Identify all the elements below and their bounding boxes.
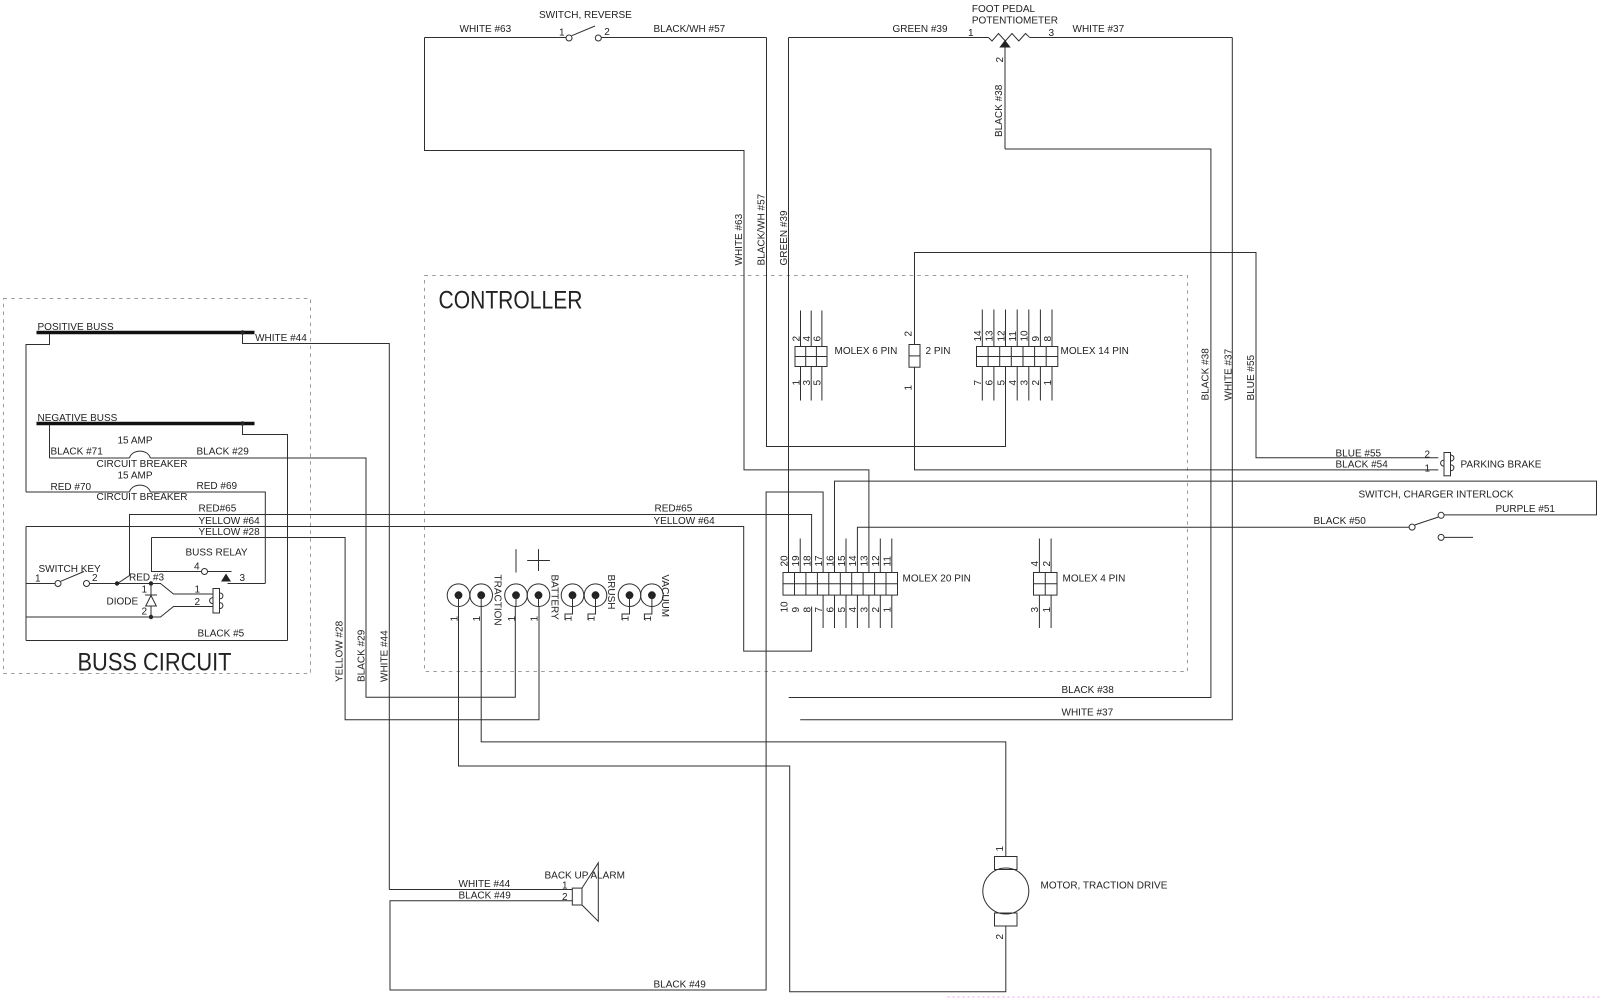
- wire GREEN #39 to pot pin 1: [789, 37, 989, 39]
- svg-text:2: 2: [791, 336, 802, 342]
- svg-text:BLACK/WH #57: BLACK/WH #57: [757, 193, 768, 265]
- molex14 pin 11 wire: [1016, 310, 1018, 347]
- wire WHITE #63 top horizontal: [425, 37, 567, 39]
- svg-text:BLUE #55: BLUE #55: [1246, 354, 1257, 400]
- svg-text:11: 11: [1008, 331, 1019, 342]
- connector J1 relay coil plug: [210, 589, 223, 614]
- 2pin pin 1 wire to parking brake BLACK #54: [915, 367, 1439, 470]
- molex14 pin 3 wire: [1028, 367, 1030, 401]
- node positive buss tap: [240, 330, 244, 334]
- svg-text:BLACK #54: BLACK #54: [1336, 460, 1389, 471]
- potentiometer R1 resistor body: [989, 34, 1030, 42]
- wire relay pin 3: [228, 583, 266, 585]
- svg-text:10: 10: [780, 601, 791, 613]
- motor M1 traction drive: [983, 857, 1029, 927]
- svg-text:2: 2: [871, 607, 882, 613]
- wire RED #69 route to relay pin 3: [150, 492, 265, 584]
- molex6 pin 4 wire: [810, 311, 812, 347]
- svg-text:SWITCH, CHARGER INTERLOCK: SWITCH, CHARGER INTERLOCK: [1359, 490, 1514, 501]
- svg-text:2: 2: [904, 331, 915, 337]
- molex4 pin 4 wire: [1038, 539, 1040, 573]
- wire GREEN #39 route to molex20 pin20: [788, 38, 790, 573]
- svg-text:4: 4: [1030, 561, 1041, 567]
- svg-text:6: 6: [985, 380, 996, 386]
- svg-text:CIRCUIT BREAKER: CIRCUIT BREAKER: [97, 492, 188, 503]
- wire YELLOW #28 route to terminal c4: [152, 538, 540, 720]
- svg-text:11: 11: [883, 556, 894, 567]
- svg-text:CONTROLLER: CONTROLLER: [439, 287, 583, 315]
- connector MOLEX 14 PIN body: [977, 347, 1058, 367]
- wire RED #65 route to molex20 pin18: [118, 515, 812, 584]
- molex14 pin 4 wire: [1016, 367, 1018, 401]
- connector MOLEX 4 PIN body: [1034, 573, 1058, 596]
- molex4 pin 2 wire: [1050, 539, 1052, 573]
- svg-text:WHITE #63: WHITE #63: [460, 24, 512, 35]
- svg-text:3: 3: [860, 607, 871, 613]
- molex4 pin 1 wire: [1050, 595, 1052, 628]
- svg-text:1: 1: [559, 28, 565, 39]
- svg-text:14: 14: [973, 330, 984, 342]
- svg-text:BLACK #49: BLACK #49: [459, 891, 512, 902]
- label FOOT PEDAL POTENTIOMETER: [972, 4, 1058, 26]
- svg-text:MOLEX 14 PIN: MOLEX 14 PIN: [1061, 346, 1129, 357]
- pot wiper arrow pin 2: [999, 40, 1010, 48]
- svg-text:POTENTIOMETER: POTENTIOMETER: [972, 15, 1058, 26]
- svg-text:WHITE #37: WHITE #37: [1224, 348, 1235, 400]
- svg-text:SWITCH, REVERSE: SWITCH, REVERSE: [539, 10, 632, 21]
- wire relay coil pin 1 lead: [151, 584, 213, 595]
- wire diode bottom rail: [26, 616, 151, 618]
- speaker LS1 back up alarm: [572, 863, 598, 922]
- svg-text:WHITE #37: WHITE #37: [1062, 708, 1114, 719]
- svg-text:RED #3: RED #3: [129, 573, 164, 584]
- svg-text:19: 19: [791, 555, 802, 567]
- molex20 pin 2 wire: [879, 595, 881, 628]
- svg-text:1: 1: [530, 616, 541, 622]
- connector J2 parking brake plug: [1441, 453, 1454, 476]
- wire BLACK #38 route pot pin2 to molex20 pin10: [789, 149, 1211, 698]
- svg-text:WHITE #44: WHITE #44: [380, 630, 391, 682]
- wire BLACK #50 molex20 pin14 to interlock: [857, 527, 1409, 572]
- wire terminal T5 stub: [565, 595, 573, 620]
- switch S3 spare throw: [1438, 534, 1473, 540]
- svg-text:BLACK #49: BLACK #49: [654, 980, 707, 991]
- svg-text:5: 5: [996, 380, 1007, 386]
- svg-text:2: 2: [194, 597, 200, 608]
- svg-text:2: 2: [604, 27, 610, 38]
- svg-text:1: 1: [791, 380, 802, 386]
- wire BLACK #49 route alarm pin2 to molex20 pin17: [390, 492, 823, 990]
- connector 2 PIN body: [909, 345, 920, 368]
- controller dashed enclosure: [425, 276, 1188, 672]
- svg-text:BLACK/WH #57: BLACK/WH #57: [654, 24, 726, 35]
- svg-text:2: 2: [995, 57, 1006, 63]
- svg-text:BLACK #38: BLACK #38: [994, 84, 1005, 137]
- molex14 pin 6 wire: [993, 367, 995, 401]
- svg-text:1: 1: [562, 881, 568, 892]
- terminal posts T1-T8: [447, 584, 663, 607]
- molex20 pin 3 wire: [868, 595, 870, 628]
- positive buss bar: [37, 331, 255, 334]
- svg-text:MOLEX 4 PIN: MOLEX 4 PIN: [1063, 574, 1126, 585]
- negative buss bar: [37, 422, 255, 425]
- svg-text:9: 9: [1031, 336, 1042, 342]
- molex14 pin 7 wire: [981, 367, 983, 401]
- molex20 pin 6 wire: [834, 595, 836, 628]
- molex14 pin 12 wire: [1005, 310, 1007, 347]
- wire switch key pin2 to node: [90, 583, 151, 585]
- svg-text:BLACK #29: BLACK #29: [197, 447, 250, 458]
- svg-text:1: 1: [968, 28, 974, 39]
- svg-text:GREEN #39: GREEN #39: [893, 24, 948, 35]
- wire terminal T6 stub: [588, 595, 596, 620]
- svg-text:RED#65: RED#65: [655, 504, 693, 515]
- molex14 pin 14 wire: [981, 310, 983, 347]
- svg-text:1: 1: [35, 574, 41, 585]
- svg-text:RED #70: RED #70: [51, 482, 92, 493]
- connector MOLEX 20 PIN body: [783, 573, 898, 596]
- wire terminal T2 to motor pin 1: [481, 595, 1006, 856]
- 2pin pin 2 wire to parking brake via BLUE #55: [915, 253, 1439, 458]
- svg-text:12: 12: [996, 330, 1007, 342]
- svg-text:BACK UP ALARM: BACK UP ALARM: [545, 871, 625, 882]
- svg-text:7: 7: [814, 607, 825, 613]
- node RED #3 junction a: [115, 581, 119, 585]
- svg-text:2: 2: [1042, 561, 1053, 567]
- wire terminal T1 to motor pin 2: [459, 595, 1006, 992]
- svg-text:2 PIN: 2 PIN: [926, 346, 951, 357]
- svg-text:1: 1: [1424, 464, 1430, 475]
- svg-text:BATTERY: BATTERY: [549, 575, 560, 621]
- left rail vertical buss circuit: [25, 527, 27, 641]
- svg-text:2: 2: [1031, 380, 1042, 386]
- relay K1 coil feed wire: [152, 538, 202, 572]
- wire terminal T8 stub: [644, 595, 652, 620]
- wire BLACK #5: [26, 640, 288, 642]
- svg-text:5: 5: [813, 380, 824, 386]
- svg-text:VACUUM: VACUUM: [659, 575, 670, 618]
- svg-text:RED#65: RED#65: [199, 504, 237, 515]
- svg-text:1: 1: [1043, 380, 1054, 386]
- buss circuit dashed enclosure: [4, 299, 311, 674]
- svg-text:2: 2: [995, 934, 1006, 940]
- svg-text:BLACK #5: BLACK #5: [198, 629, 245, 640]
- svg-text:FOOT PEDAL: FOOT PEDAL: [972, 4, 1036, 15]
- svg-text:MOLEX 6 PIN: MOLEX 6 PIN: [835, 346, 898, 357]
- svg-text:BLACK #38: BLACK #38: [1062, 685, 1115, 696]
- switch S2 key contacts: [55, 572, 90, 587]
- molex14 pin 13 wire: [993, 310, 995, 347]
- switch S3 charger interlock: [1409, 512, 1444, 530]
- svg-text:7: 7: [973, 380, 984, 386]
- svg-text:1: 1: [904, 385, 915, 391]
- svg-text:10: 10: [1020, 330, 1031, 342]
- molex6 pin 3 wire: [810, 367, 812, 401]
- wire to switch key pin 1: [26, 583, 55, 585]
- svg-text:2: 2: [141, 607, 147, 618]
- svg-text:CIRCUIT BREAKER: CIRCUIT BREAKER: [97, 459, 188, 470]
- molex20 pin 12 wire: [879, 539, 881, 573]
- wire YELLOW #64 route to molex20 pin8: [26, 527, 812, 652]
- relay K1 contact: [202, 569, 232, 582]
- wire negative buss to BLACK #5: [243, 424, 288, 641]
- svg-text:BLACK #71: BLACK #71: [51, 447, 104, 458]
- svg-text:2: 2: [1424, 450, 1430, 461]
- svg-text:15 AMP: 15 AMP: [118, 471, 153, 482]
- wire WHITE #63 route to molex20 pin13: [425, 38, 869, 573]
- svg-text:WHITE #37: WHITE #37: [1073, 24, 1125, 35]
- svg-text:1: 1: [507, 616, 518, 622]
- wire BLACK/WH #57 top horizontal: [601, 37, 766, 39]
- svg-text:1: 1: [194, 585, 200, 596]
- svg-text:1: 1: [995, 846, 1006, 852]
- svg-text:PURPLE #51: PURPLE #51: [1496, 504, 1556, 515]
- wire terminal T3 stub: [515, 595, 517, 606]
- svg-text:3: 3: [1030, 607, 1041, 613]
- svg-text:BLACK #29: BLACK #29: [357, 629, 368, 682]
- svg-text:4: 4: [848, 607, 859, 613]
- svg-text:12: 12: [871, 555, 882, 567]
- svg-text:BUSS CIRCUIT: BUSS CIRCUIT: [78, 649, 232, 677]
- svg-text:5: 5: [837, 607, 848, 613]
- svg-text:YELLOW #64: YELLOW #64: [199, 516, 261, 527]
- svg-text:4: 4: [194, 562, 200, 573]
- svg-text:3: 3: [240, 573, 246, 584]
- svg-text:15: 15: [837, 555, 848, 567]
- svg-text:MOTOR, TRACTION DRIVE: MOTOR, TRACTION DRIVE: [1041, 881, 1168, 892]
- svg-text:BLACK #50: BLACK #50: [1314, 516, 1367, 527]
- svg-text:DIODE: DIODE: [107, 597, 139, 608]
- molex14 pin 2 wire: [1039, 367, 1041, 401]
- svg-text:3: 3: [1020, 380, 1031, 386]
- svg-text:2: 2: [562, 892, 568, 903]
- svg-text:9: 9: [791, 607, 802, 613]
- molex20 pin 7 wire: [822, 595, 824, 628]
- svg-text:1: 1: [883, 607, 894, 613]
- node RED #3 junction b: [149, 581, 153, 585]
- svg-text:GREEN #39: GREEN #39: [779, 210, 790, 265]
- wire positive buss drop to RED #70: [26, 334, 50, 493]
- svg-text:1: 1: [141, 585, 147, 596]
- molex14 pin 1 wire: [1051, 367, 1053, 401]
- switch S1 reverse contacts: [566, 26, 601, 41]
- svg-text:2: 2: [92, 573, 98, 584]
- battery plus mark: [527, 549, 550, 571]
- molex14 pin 8 wire: [1051, 310, 1053, 347]
- svg-text:8: 8: [1043, 336, 1054, 342]
- node diode cathode junction: [149, 615, 153, 619]
- pink dotted page mark: [948, 996, 1600, 998]
- svg-text:YELLOW #28: YELLOW #28: [335, 620, 346, 682]
- molex6 pin 2 wire: [800, 311, 802, 347]
- wire WHITE #37 from pot pin 3: [1030, 37, 1233, 39]
- node negative buss tap: [240, 421, 244, 425]
- svg-text:1: 1: [1042, 607, 1053, 613]
- svg-text:6: 6: [813, 336, 824, 342]
- svg-text:RED #69: RED #69: [197, 481, 238, 492]
- battery minus mark: [515, 549, 517, 572]
- svg-text:13: 13: [860, 555, 871, 567]
- wire BLACK/WH #57 route to molex14 pin5: [767, 38, 1006, 447]
- wire terminal T7 stub: [622, 595, 630, 620]
- svg-text:WHITE #44: WHITE #44: [255, 333, 307, 344]
- wire WHITE #44 to alarm pin 1: [389, 889, 572, 891]
- svg-text:BRUSH: BRUSH: [605, 575, 616, 610]
- wire BLACK #29 route to terminal c3: [150, 458, 515, 697]
- svg-text:8: 8: [802, 607, 813, 613]
- svg-text:3: 3: [802, 380, 813, 386]
- svg-text:YELLOW #64: YELLOW #64: [654, 516, 716, 527]
- molex20 pin 4 wire: [856, 595, 858, 628]
- svg-text:6: 6: [825, 607, 836, 613]
- svg-text:15 AMP: 15 AMP: [118, 436, 153, 447]
- svg-text:13: 13: [985, 330, 996, 342]
- wire PURPLE #51 molex20 pin16 to interlock: [835, 481, 1597, 572]
- svg-text:BLUE #55: BLUE #55: [1336, 449, 1382, 460]
- molex20 pin 1 wire: [891, 595, 893, 628]
- molex20 pin 19 wire: [799, 539, 801, 573]
- svg-text:BLACK #38: BLACK #38: [1201, 348, 1212, 401]
- molex20 pin 5 wire: [845, 595, 847, 628]
- svg-text:4: 4: [1008, 380, 1019, 386]
- wire relay coil pin 2 lead: [151, 607, 213, 618]
- molex6 pin 1 wire: [800, 367, 802, 401]
- wire negative buss drop to BLACK #71: [49, 425, 51, 459]
- wire BLACK #38 wiper vertical: [1004, 48, 1006, 150]
- svg-text:4: 4: [802, 336, 813, 342]
- svg-text:BUSS RELAY: BUSS RELAY: [186, 548, 248, 559]
- svg-text:WHITE #44: WHITE #44: [459, 879, 511, 890]
- molex14 pin 9 wire: [1039, 310, 1041, 347]
- molex20 pin 15 wire: [845, 539, 847, 573]
- circuit breaker CB2: [26, 485, 150, 492]
- svg-text:TRACTION: TRACTION: [492, 575, 503, 626]
- svg-text:PARKING BRAKE: PARKING BRAKE: [1461, 460, 1542, 471]
- molex6 pin 5 wire: [821, 367, 823, 401]
- circuit breaker CB1: [50, 451, 151, 458]
- svg-text:18: 18: [802, 555, 813, 567]
- svg-text:20: 20: [780, 555, 791, 567]
- diode D1: [145, 584, 157, 618]
- connector MOLEX 6 PIN body: [795, 347, 827, 367]
- svg-text:YELLOW #28: YELLOW #28: [199, 527, 261, 538]
- molex20 pin 11 wire: [891, 539, 893, 573]
- molex14 pin 10 wire: [1028, 310, 1030, 347]
- wire WHITE #37 route pot pin3 to molex20 pin9: [800, 38, 1232, 720]
- svg-text:MOLEX 20 PIN: MOLEX 20 PIN: [903, 574, 971, 585]
- molex4 pin 3 wire: [1038, 595, 1040, 628]
- wire terminal T4 stub: [538, 595, 540, 606]
- wire WHITE #44 from positive buss: [243, 333, 390, 890]
- molex6 pin 6 wire: [821, 311, 823, 347]
- svg-text:WHITE #63: WHITE #63: [734, 213, 745, 265]
